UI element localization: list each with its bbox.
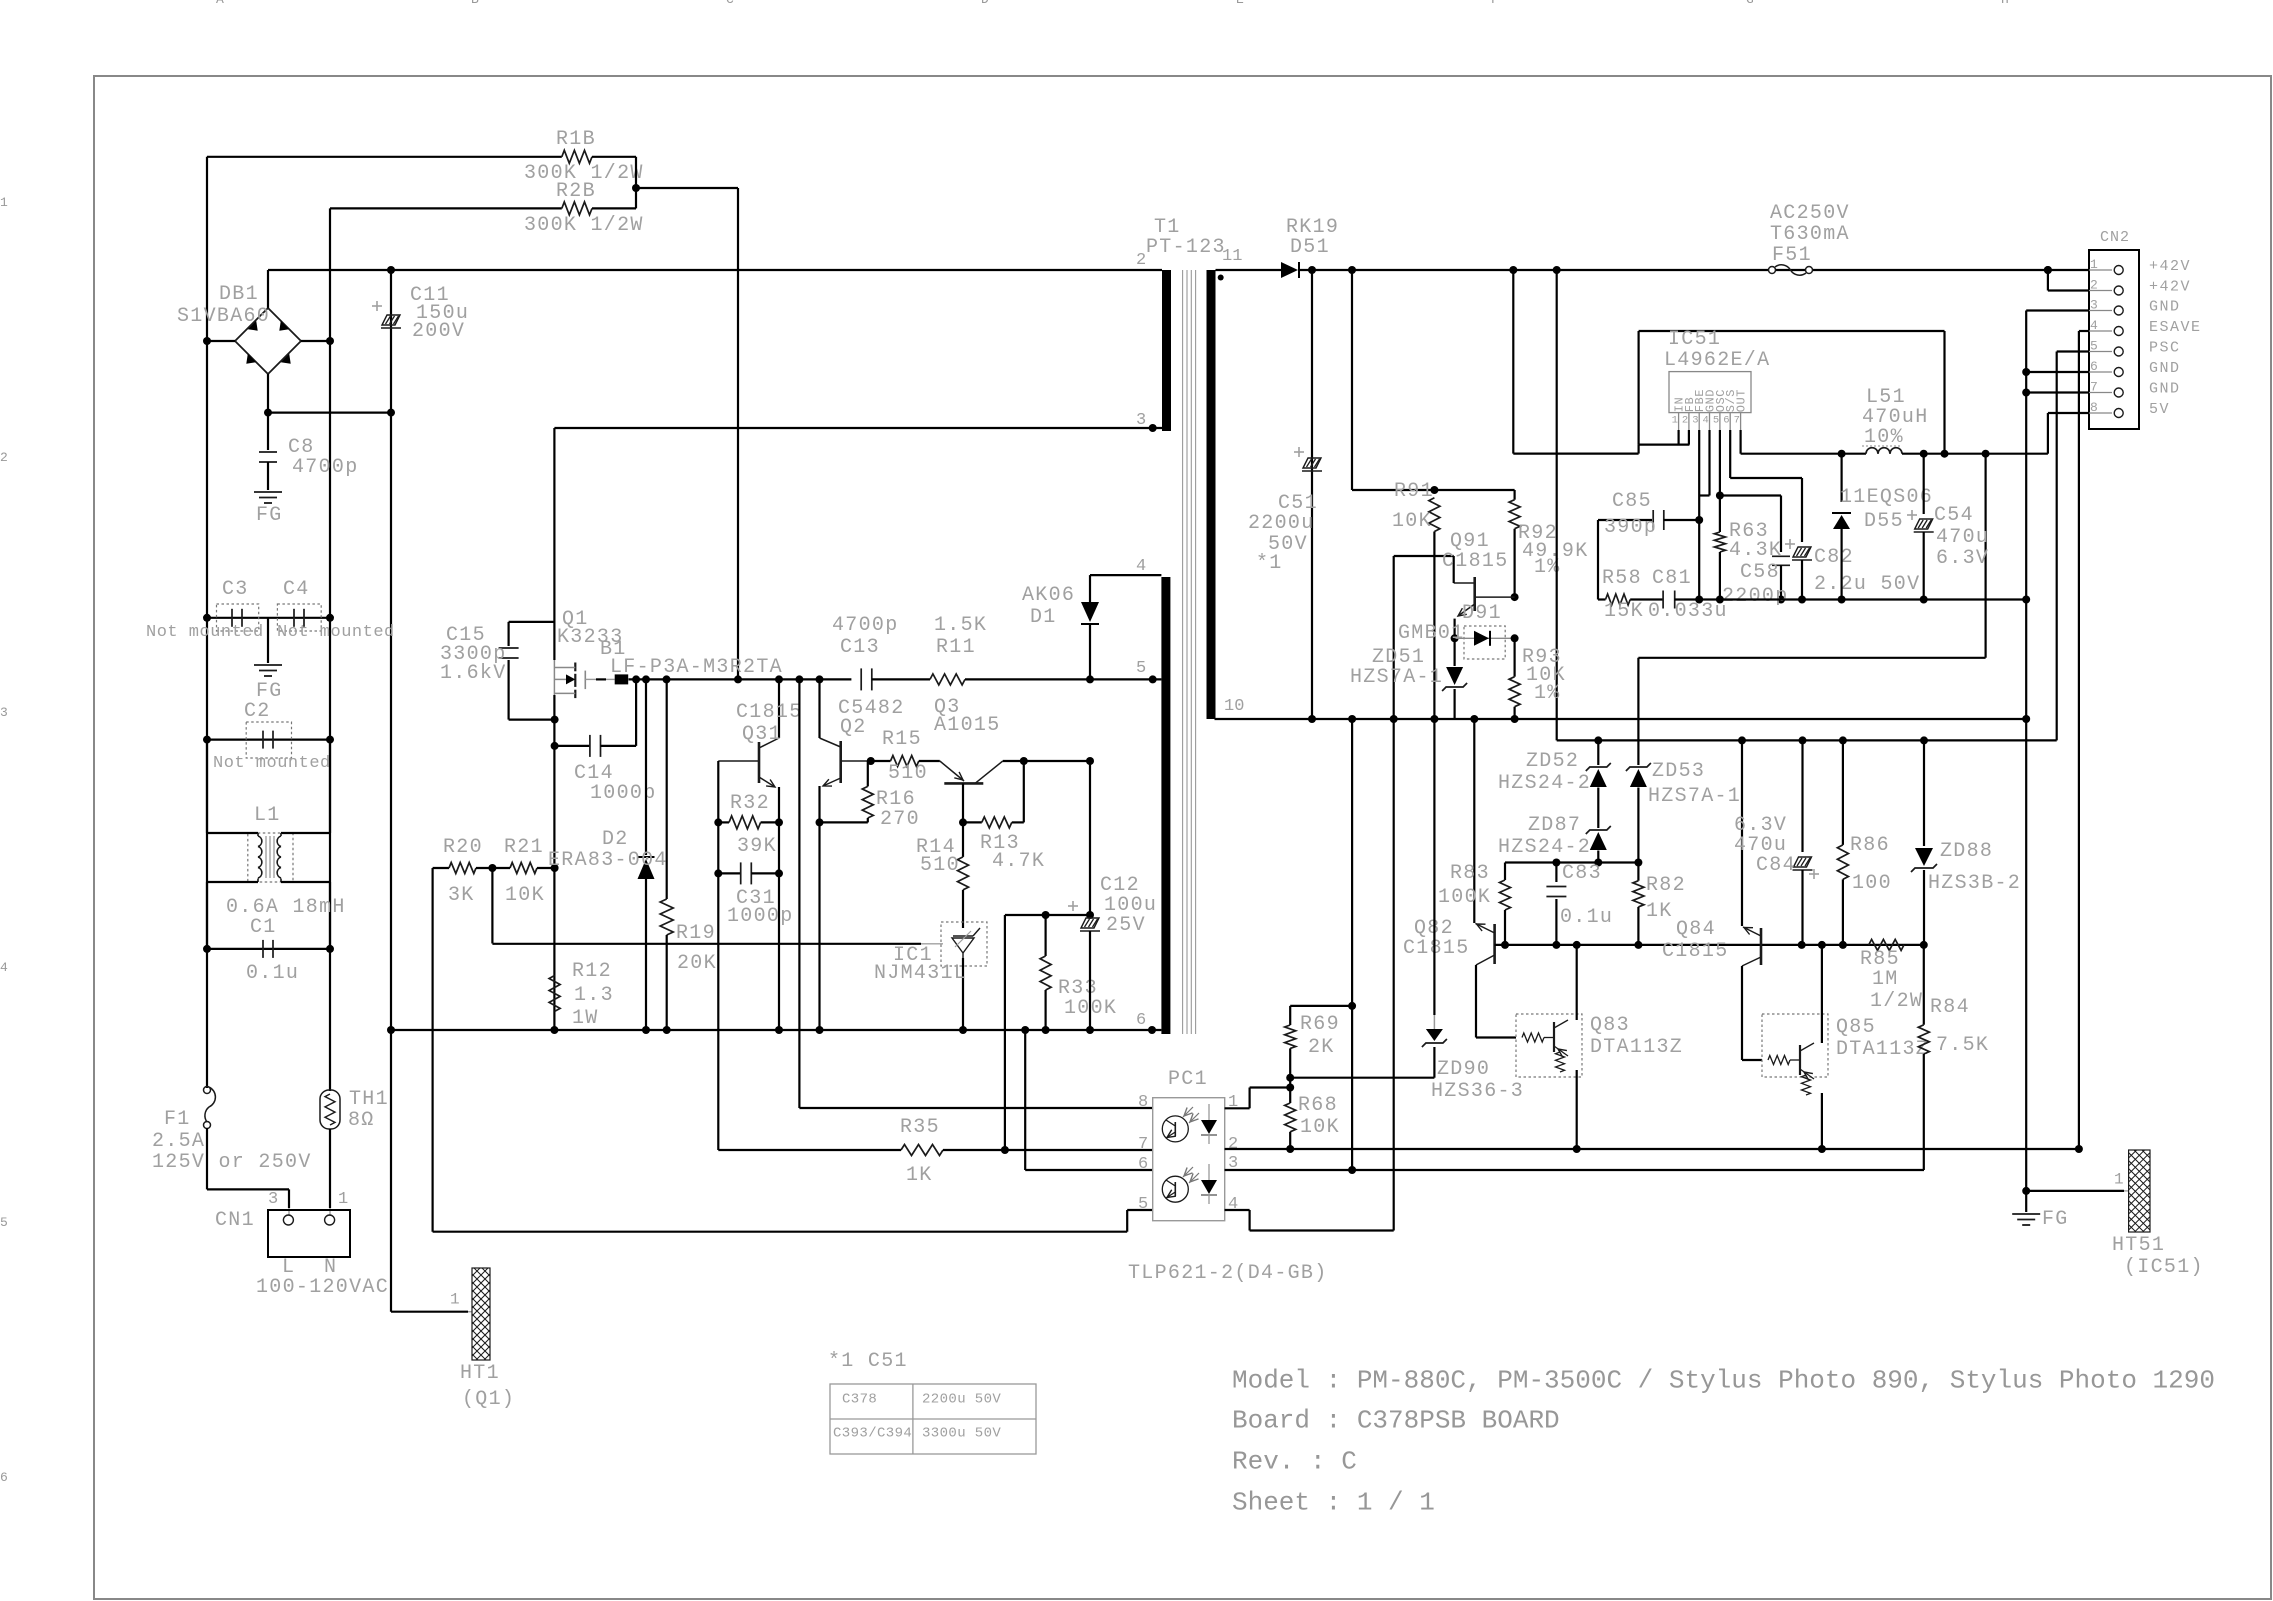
optocoupler PC1 body: [1153, 1098, 1225, 1221]
svg-text:D2: D2: [602, 828, 629, 851]
transformer T1 aux winding bar pins 4-5-6: [1161, 577, 1170, 1034]
wire CN2 pin8 5V: [2048, 412, 2089, 414]
svg-text:AC250V: AC250V: [1770, 202, 1850, 225]
svg-text:H: H: [2001, 0, 2009, 7]
svg-text:D: D: [981, 0, 989, 7]
svg-text:6: 6: [0, 1470, 8, 1485]
svg-text:5: 5: [2090, 338, 2098, 353]
svg-text:10K: 10K: [505, 884, 545, 907]
svg-text:11EQS06: 11EQS06: [1840, 486, 1933, 509]
svg-text:GND: GND: [2149, 381, 2181, 398]
capacitor C13 4700p: [860, 668, 862, 690]
svg-text:DTA113Z: DTA113Z: [1836, 1038, 1929, 1061]
wire C3/C4 midpoint to FG: [267, 618, 269, 663]
svg-text:C82: C82: [1814, 546, 1854, 569]
wire HV- node: [268, 412, 391, 414]
wire left AC bus (L line): [206, 157, 208, 1088]
ground FG near HT51: [2022, 1187, 2030, 1195]
svg-text:3: 3: [1136, 411, 1146, 430]
svg-text:1.3: 1.3: [574, 984, 614, 1007]
svg-text:HZS7A-1: HZS7A-1: [1648, 785, 1741, 808]
resistor R35 1K: [901, 1145, 943, 1156]
CN2 pin 7 GND: [2089, 392, 2112, 394]
svg-text:TH1: TH1: [349, 1088, 389, 1111]
PC1 phototransistor 2: [1162, 1176, 1188, 1202]
wire IC1 reference line: [491, 868, 493, 944]
svg-text:GND: GND: [2149, 299, 2181, 316]
transistor Q3 A1015: [944, 782, 983, 785]
svg-text:FG: FG: [2042, 1208, 2069, 1231]
svg-text:1.5K: 1.5K: [934, 614, 987, 637]
resistor R12 1.3 1W: [549, 976, 560, 1012]
svg-text:Board : C378PSB BOARD: Board : C378PSB BOARD: [1232, 1406, 1560, 1436]
wire CN2 pin2 +42V link: [2047, 270, 2049, 291]
svg-text:2: 2: [1228, 1135, 1238, 1154]
svg-text:R19: R19: [676, 922, 716, 945]
svg-text:Model : PM-880C, PM-3500C / St: Model : PM-880C, PM-3500C / Stylus Photo…: [1232, 1366, 2215, 1396]
svg-text:R35: R35: [900, 1116, 940, 1139]
capacitor C4 (not mounted): [277, 604, 321, 631]
svg-text:100-120VAC: 100-120VAC: [256, 1276, 389, 1299]
svg-text:1: 1: [338, 1190, 348, 1209]
svg-text:4: 4: [1228, 1195, 1238, 1214]
wire PSC zener line: [1557, 739, 2057, 741]
svg-text:C54: C54: [1934, 504, 1974, 527]
zener diode ZD87 HZS24-2: [1597, 788, 1599, 829]
svg-text:HT1: HT1: [460, 1362, 500, 1385]
svg-text:2200p: 2200p: [1722, 585, 1789, 608]
svg-text:R86: R86: [1850, 834, 1890, 857]
svg-text:ZD87: ZD87: [1528, 814, 1581, 837]
resistor R86 100: [1842, 740, 1844, 845]
IC51 pin3 FBE chain: [1698, 430, 1700, 600]
svg-text:5: 5: [1138, 1195, 1148, 1214]
svg-text:3300u 50V: 3300u 50V: [922, 1425, 1001, 1441]
svg-text:PSC: PSC: [2149, 340, 2181, 357]
transformer T1 secondary winding bar pins 11-10: [1207, 270, 1216, 719]
wire HV+ top bus to transformer pin 2: [268, 269, 1162, 271]
wire PC1 pin1 riser: [1225, 1107, 1250, 1109]
svg-text:1W: 1W: [572, 1007, 599, 1030]
resistor R69 2K: [1351, 719, 1353, 1170]
svg-text:8: 8: [2090, 400, 2098, 415]
svg-text:F: F: [1491, 0, 1499, 7]
ferrite bead B1 on gate: [585, 678, 596, 680]
resistor R11 1.5K: [930, 674, 965, 685]
svg-text:1: 1: [1672, 414, 1678, 426]
svg-text:PC1: PC1: [1168, 1068, 1208, 1091]
wire PC1 pin3 PSC line: [1225, 1169, 1924, 1171]
svg-text:2200u: 2200u: [1248, 512, 1315, 535]
transistor Q84 C1815: [1741, 740, 1743, 926]
IC51 pin6 S/S to C82: [1729, 430, 1731, 478]
capacitor C85 390p: [1597, 520, 1599, 600]
capacitor C84 470u 6.3V: [1801, 740, 1803, 852]
svg-text:2K: 2K: [1308, 1036, 1335, 1059]
capacitor C1: [207, 948, 330, 950]
svg-text:C13: C13: [840, 636, 880, 659]
svg-text:5: 5: [1136, 659, 1146, 678]
svg-text:7: 7: [1734, 414, 1740, 426]
svg-text:6: 6: [2090, 359, 2098, 374]
IC51 pin5 OSC to R63: [1719, 430, 1721, 532]
svg-text:*1: *1: [1256, 552, 1283, 575]
svg-text:510: 510: [920, 854, 960, 877]
svg-text:0.1u: 0.1u: [1560, 906, 1613, 929]
svg-text:5: 5: [0, 1215, 8, 1230]
svg-text:D1: D1: [1030, 606, 1057, 629]
wire C15 bottom to source node: [509, 718, 555, 720]
IC51 pin1 pin2 to feedback loop: [1677, 430, 1679, 445]
resistor R1B: [207, 156, 562, 158]
wire CN2 pin7 GND: [2026, 391, 2089, 393]
zener diode ZD51 HZS7A-1: [1453, 638, 1455, 666]
capacitor C3 (not mounted): [207, 617, 330, 619]
svg-text:1000p: 1000p: [727, 905, 794, 928]
svg-text:C2: C2: [244, 700, 271, 723]
svg-text:6: 6: [1136, 1011, 1146, 1030]
resistor R84 7.5K: [1923, 945, 1925, 1025]
resistor R85 1M 1/2W: [1869, 939, 1904, 950]
svg-text:3: 3: [0, 705, 8, 720]
diode D1 AK06: [1090, 574, 1161, 576]
capacitor C82 2.2u 50V: [1785, 543, 1795, 545]
svg-text:C3: C3: [222, 578, 249, 601]
fuse F1: [204, 1087, 211, 1094]
svg-text:R1B: R1B: [556, 128, 596, 151]
svg-text:S1VBA60: S1VBA60: [177, 305, 270, 328]
svg-text:R20: R20: [443, 836, 483, 859]
svg-text:+42V: +42V: [2149, 279, 2191, 296]
ground FG below C8: [254, 491, 282, 493]
svg-text:C4: C4: [283, 578, 310, 601]
svg-text:2: 2: [1136, 251, 1146, 270]
svg-text:C1815: C1815: [1442, 550, 1509, 573]
svg-text:3: 3: [268, 1190, 278, 1209]
diode D51 RK19: [1216, 269, 1286, 271]
IC51 envelope wires: [1639, 330, 1945, 332]
wire 5V OUT rail: [1741, 453, 1866, 455]
svg-text:300K 1/2W: 300K 1/2W: [524, 214, 644, 237]
svg-text:200V: 200V: [412, 320, 465, 343]
svg-text:2.5A: 2.5A: [152, 1130, 205, 1153]
wire PC1 pin8 anode line: [798, 679, 800, 1108]
svg-text:0.033u: 0.033u: [1648, 600, 1728, 623]
svg-text:4: 4: [2090, 318, 2098, 333]
zener diode ZD53 HZS7A-1: [1637, 658, 1639, 765]
svg-text:2: 2: [0, 450, 8, 465]
wire DB1 right to N-side node: [301, 340, 330, 342]
svg-text:T630mA: T630mA: [1770, 223, 1850, 246]
svg-text:0.1u: 0.1u: [246, 962, 299, 985]
svg-text:4.7K: 4.7K: [992, 850, 1045, 873]
svg-text:F51: F51: [1772, 244, 1812, 267]
svg-text:Sheet : 1 / 1: Sheet : 1 / 1: [1232, 1488, 1435, 1518]
svg-text:5V: 5V: [2149, 401, 2170, 418]
wire Q82 collector to Q83 input: [1476, 1036, 1516, 1038]
svg-text:6: 6: [1138, 1155, 1148, 1174]
resistor R68 10K: [1285, 1103, 1296, 1132]
svg-text:B: B: [471, 0, 479, 7]
diode D2 ERA83-004: [645, 679, 647, 855]
svg-text:5: 5: [1713, 414, 1719, 426]
svg-text:GND: GND: [2149, 360, 2181, 377]
svg-text:C1815: C1815: [1662, 940, 1729, 963]
svg-text:F1: F1: [164, 1108, 191, 1131]
svg-text:D91: D91: [1462, 602, 1502, 625]
table C51 variants: [830, 1384, 1036, 1454]
svg-text:C58: C58: [1740, 561, 1780, 584]
wire PC1 pin6 line: [1024, 1030, 1026, 1170]
svg-text:R2B: R2B: [556, 180, 596, 203]
capacitor C54 470u 6.3V: [1923, 454, 1925, 514]
svg-text:D51: D51: [1290, 236, 1330, 259]
wire Q1 source chain down: [553, 695, 555, 1030]
svg-text:1: 1: [450, 1291, 460, 1309]
svg-text:6: 6: [1723, 414, 1729, 426]
capacitor C51 secondary bulk: [1311, 270, 1313, 719]
capacitor C11 primary bulk: [390, 270, 392, 413]
svg-text:Q84: Q84: [1676, 918, 1716, 941]
svg-text:R91: R91: [1394, 480, 1434, 503]
resistor R58 15K: [1597, 598, 1599, 600]
svg-text:C84: C84: [1756, 854, 1796, 877]
svg-text:Not mounted: Not mounted: [146, 623, 264, 642]
capacitor C83 0.1u: [1555, 863, 1557, 883]
wire CN2 pin1 +42V: [2044, 266, 2052, 274]
svg-text:11: 11: [1222, 247, 1242, 266]
CN2 pin 5 PSC: [2089, 351, 2112, 353]
svg-text:C83: C83: [1562, 862, 1602, 885]
svg-text:1.6kV: 1.6kV: [440, 662, 507, 685]
ground FG below C3/C4: [254, 664, 282, 666]
svg-text:R82: R82: [1646, 874, 1686, 897]
diode D55 11EQS06: [1840, 454, 1842, 502]
svg-text:ESAVE: ESAVE: [2149, 319, 2202, 336]
svg-text:R83: R83: [1450, 862, 1490, 885]
svg-text:Rev. : C: Rev. : C: [1232, 1447, 1357, 1477]
resistor R93 10K 1%: [1513, 638, 1515, 676]
wire F1 to CN1 pin 3: [207, 1188, 289, 1190]
svg-text:L4962E/A: L4962E/A: [1664, 349, 1770, 372]
transformer T1 core lines: [1182, 270, 1184, 1034]
transformer T1 primary winding bar pins 2-3: [1162, 270, 1171, 431]
svg-text:C1815: C1815: [736, 701, 803, 724]
svg-text:2200u 50V: 2200u 50V: [922, 1391, 1001, 1407]
svg-text:ZD52: ZD52: [1526, 750, 1579, 773]
svg-text:R58: R58: [1602, 567, 1642, 590]
wire IC51 IN feed from +42V: [1512, 270, 1514, 454]
inductor L51 470uH 10%: [1866, 448, 1878, 454]
PC1 LED 2: [1201, 1180, 1217, 1194]
svg-text:20K: 20K: [677, 952, 717, 975]
resistor R2B: [330, 207, 562, 209]
svg-text:10K: 10K: [1392, 510, 1432, 533]
capacitor C2 (not mounted): [207, 738, 330, 740]
svg-text:CN2: CN2: [2100, 229, 2130, 246]
capacitor C31 1000p: [718, 872, 740, 874]
CN2 pin 1 +42V: [2089, 269, 2112, 271]
wire PC1 pin5 return line: [433, 1231, 1128, 1233]
svg-text:C1815: C1815: [1403, 937, 1470, 960]
fuse F51: [1769, 267, 1776, 274]
wire PC1 pin4 step: [1225, 1209, 1250, 1211]
svg-text:4: 4: [0, 960, 8, 975]
svg-text:+42V: +42V: [2149, 258, 2191, 275]
resistor R16 270: [867, 761, 869, 786]
svg-text:HZS3B-2: HZS3B-2: [1928, 872, 2021, 895]
transistor Q2 C5482: [839, 741, 842, 783]
wire DB1 left to AC bus: [207, 340, 235, 342]
svg-text:(Q1): (Q1): [462, 1388, 515, 1411]
wire R35 feedback line: [717, 1030, 719, 1150]
svg-text:C378: C378: [842, 1391, 877, 1407]
PC1 phototransistor 1: [1162, 1116, 1188, 1142]
transistor Q85 DTA113Z: [1742, 1059, 1762, 1061]
svg-text:DB1: DB1: [219, 283, 259, 306]
svg-text:4: 4: [1136, 557, 1146, 576]
CN2 pin 2 +42V: [2089, 290, 2112, 292]
svg-text:C81: C81: [1652, 567, 1692, 590]
CN2 pin 6 GND: [2089, 371, 2112, 373]
IC51 pin stubs and numbers: [1678, 413, 1680, 430]
svg-text:HZS7A-1: HZS7A-1: [1350, 666, 1443, 689]
svg-text:1%: 1%: [1534, 682, 1561, 705]
wire PC1 pin2 ESAVE line: [1225, 1148, 2079, 1150]
svg-text:Not mounted: Not mounted: [213, 754, 331, 773]
svg-text:25V: 25V: [1106, 914, 1146, 937]
wire startup feed down to gate bus: [737, 188, 739, 679]
svg-text:R21: R21: [504, 836, 544, 859]
svg-text:D55: D55: [1864, 510, 1904, 533]
svg-text:Q83: Q83: [1590, 1014, 1630, 1037]
svg-text:10K: 10K: [1300, 1116, 1340, 1139]
svg-text:Q31: Q31: [742, 723, 782, 746]
svg-text:1K: 1K: [906, 1164, 933, 1187]
transistor Q82 C1815: [1473, 719, 1475, 923]
svg-text:C: C: [726, 0, 734, 7]
resistor R33 100K: [1005, 914, 1090, 916]
zener diode ZD52 HZS24-2: [1597, 740, 1599, 765]
svg-text:R69: R69: [1300, 1013, 1340, 1036]
svg-text:AK06: AK06: [1022, 584, 1075, 607]
capacitor C8: [267, 413, 269, 450]
svg-text:DTA113Z: DTA113Z: [1590, 1036, 1683, 1059]
CN2 pin 3 GND: [2089, 310, 2112, 312]
zener diode ZD90 HZS36-3: [1433, 719, 1435, 1015]
svg-text:ZD53: ZD53: [1652, 760, 1705, 783]
svg-text:R11: R11: [936, 636, 976, 659]
wire right AC bus (N line): [329, 208, 331, 1091]
wire DB1 bottom: [267, 374, 269, 413]
svg-text:1M: 1M: [1872, 968, 1899, 991]
svg-text:ERA83-004: ERA83-004: [548, 849, 668, 872]
wire +42V feed to R91/R92 divider: [1351, 270, 1353, 490]
svg-text:2.2u 50V: 2.2u 50V: [1814, 573, 1920, 596]
svg-text:7: 7: [1138, 1135, 1148, 1154]
capacitor C58 2200p: [1720, 494, 1781, 496]
svg-text:IC51: IC51: [1668, 328, 1721, 351]
resistor R21 10K: [510, 863, 537, 874]
svg-text:0.6A 18mH: 0.6A 18mH: [226, 896, 346, 919]
svg-text:4700p: 4700p: [292, 456, 359, 479]
svg-text:8Ω: 8Ω: [348, 1109, 375, 1132]
resistor R15 510: [871, 760, 891, 762]
svg-text:1: 1: [2090, 257, 2098, 272]
CN2 pin 8 5V: [2089, 412, 2112, 414]
svg-text:HZS36-3: HZS36-3: [1431, 1080, 1524, 1103]
svg-text:4.3K: 4.3K: [1729, 539, 1782, 562]
wire pin3 to Q1 drain: [554, 427, 1162, 429]
svg-text:4700p: 4700p: [832, 614, 899, 637]
svg-text:R84: R84: [1930, 996, 1970, 1019]
wire Q91 base feedback drop: [1393, 719, 1395, 1231]
resistor R14 510: [962, 822, 964, 857]
svg-text:Q2: Q2: [840, 716, 867, 739]
svg-text:R32: R32: [730, 792, 770, 815]
svg-text:510: 510: [888, 762, 928, 785]
resistor R32 39K: [717, 761, 719, 1030]
svg-text:A1015: A1015: [934, 714, 1001, 737]
svg-text:C85: C85: [1612, 490, 1652, 513]
svg-text:TLP621-2(D4-GB): TLP621-2(D4-GB): [1128, 1262, 1328, 1285]
svg-text:15K: 15K: [1604, 600, 1644, 623]
svg-text:R68: R68: [1298, 1094, 1338, 1117]
wire PSC zener rail riser: [1556, 270, 1558, 740]
connector CN1: [268, 1210, 350, 1257]
shunt regulator IC1 NJM431L: [941, 922, 987, 966]
IC51 pin4 GND jog: [1708, 430, 1710, 496]
wire primary ground bus: [391, 1029, 1161, 1031]
PC1 LED 1: [1201, 1120, 1217, 1134]
svg-text:2: 2: [2090, 277, 2098, 292]
wire ZD53 top to 5V rail: [1638, 657, 1985, 659]
CN2 pin 4 ESAVE: [2089, 330, 2112, 332]
wire CN2 pin3 GND: [2026, 309, 2089, 311]
svg-text:(IC51): (IC51): [2124, 1256, 2204, 1279]
resistor R19 20K: [666, 679, 668, 899]
svg-text:3K: 3K: [448, 884, 475, 907]
svg-text:ZD90: ZD90: [1437, 1058, 1490, 1081]
svg-text:R12: R12: [572, 960, 612, 983]
svg-text:7: 7: [2090, 379, 2098, 394]
svg-text:2: 2: [1682, 414, 1688, 426]
wire 5V return bus: [1699, 598, 2026, 600]
svg-text:4: 4: [1703, 414, 1709, 426]
svg-text:470u: 470u: [1936, 526, 1989, 549]
transistor Q31 C1815: [758, 742, 761, 783]
IC51 pin7 OUT: [1739, 430, 1741, 454]
svg-text:PT-123: PT-123: [1146, 236, 1226, 259]
svg-text:39K: 39K: [737, 835, 777, 858]
capacitor C12 100u 25V: [1089, 761, 1091, 916]
wire Q3 collector to D1 node: [1003, 760, 1090, 762]
wire to HT1 pin 1: [391, 1311, 468, 1313]
resistor R91 10K: [1429, 498, 1440, 532]
resistor R63 4.3K: [1714, 532, 1725, 552]
capacitor C81 0.033u: [1662, 591, 1664, 609]
wire CN2 pin6 GND: [2026, 371, 2089, 373]
wire gate bus: [629, 678, 852, 680]
wire CN2 pin4 ESAVE: [2079, 330, 2089, 332]
transistor Q83 DTA113Z: [1516, 1014, 1582, 1077]
bridge rectifier DB1: [267, 270, 269, 308]
wire secondary ground bus pin 10: [1215, 718, 2027, 720]
svg-text:FG: FG: [256, 504, 283, 527]
wire CN2 pin5 PSC: [2057, 350, 2089, 352]
svg-text:R15: R15: [882, 728, 922, 751]
svg-text:125V or 250V: 125V or 250V: [152, 1151, 312, 1174]
